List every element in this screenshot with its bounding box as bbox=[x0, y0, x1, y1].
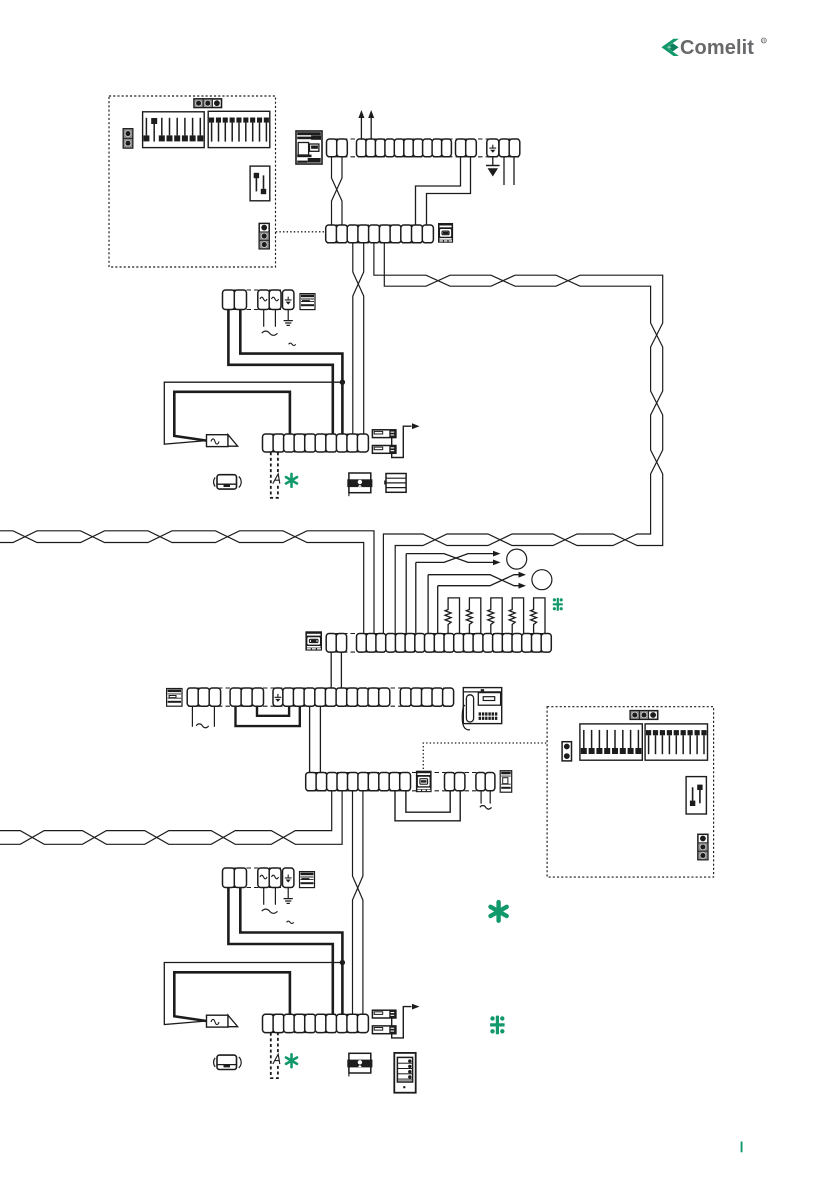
module icon left of row 1 (mixer unit) bbox=[296, 131, 322, 164]
bell circle 1 bbox=[507, 549, 527, 569]
AC leads row 4 bbox=[192, 706, 214, 727]
wire central row T1 to row 4 bbox=[330, 652, 332, 688]
lower riser twisted pair wire B bbox=[0, 791, 342, 845]
entrance panel icon bbox=[394, 1053, 415, 1093]
bell circle 2 bbox=[532, 570, 552, 590]
U jumper below row5 inner bbox=[406, 791, 450, 812]
wire pair row4 down to row5 bbox=[310, 706, 321, 772]
resistor R3 unit bbox=[488, 598, 502, 634]
dotted link monitor to unit box 2 bbox=[423, 743, 547, 769]
relay output arrow wire (upper) bbox=[392, 426, 412, 457]
jumper CV1 (unit 2) bbox=[562, 742, 571, 761]
green asterisk large bbox=[491, 902, 507, 921]
mains tilde label 1 bbox=[289, 343, 296, 346]
thick U wire to lock and row3 (upper) bbox=[174, 392, 290, 441]
switch box SW1 (unit 2) bbox=[686, 777, 706, 814]
twisted pair ring wire B (row2-right riser-central row) bbox=[383, 243, 662, 634]
green asterisk note (lower) bbox=[286, 1054, 297, 1067]
thick U wire to lock and row6 (lower) bbox=[174, 972, 290, 1021]
door module icon (lower) bbox=[349, 1053, 371, 1073]
mains tilde label 2 bbox=[287, 921, 294, 924]
relay link wire (upper) bbox=[391, 438, 393, 446]
arrow up from row1 terminal 4 bbox=[370, 118, 372, 140]
label A (lower) bbox=[273, 1054, 281, 1064]
jumper JP1 (unit 2) bbox=[630, 711, 658, 720]
AC source symbol row 4 bbox=[196, 724, 208, 728]
intercom telephone icon bbox=[463, 688, 501, 724]
thin wire loop to lock (lower) bbox=[164, 963, 342, 1025]
AC leads right of row5 bbox=[481, 791, 490, 804]
jumper CV2 (unit 1) bbox=[259, 223, 269, 248]
AC source symbol 1 bbox=[262, 331, 278, 335]
power supply terminal block 1 bbox=[224, 290, 293, 310]
push button icon (upper) bbox=[217, 475, 237, 489]
twisted pair riser A (row1 to row2) bbox=[332, 157, 343, 225]
svg-text:Comelit: Comelit bbox=[680, 37, 754, 59]
unit box 1 (dashed enclosure) bbox=[109, 96, 276, 267]
AC leads transformer 2 bbox=[264, 888, 276, 905]
dashed wire A (lower) bbox=[271, 1033, 278, 1078]
U jumper below row5 outer bbox=[395, 791, 460, 821]
power supply module icon 1 bbox=[300, 294, 315, 310]
terminal strip row 1 (power mixer) bbox=[328, 139, 519, 157]
thick wire PSU1 terminal 2 to row3 (inner L) bbox=[240, 310, 342, 435]
earth ground symbol 2 bbox=[284, 899, 293, 904]
twisted pair ring wire A (row2-right riser-central row) bbox=[374, 243, 663, 634]
module icon right of row 5 bbox=[500, 771, 512, 793]
green cross note (central) bbox=[553, 598, 563, 611]
Comelit logo bbox=[661, 37, 766, 59]
green asterisk note (upper) bbox=[286, 474, 297, 487]
resistor R5 unit bbox=[531, 598, 545, 634]
thick U jumper inner (row 4) bbox=[257, 706, 289, 716]
earth lead power supply 2 bbox=[287, 888, 289, 899]
AC tilde right of row5 bbox=[480, 806, 492, 810]
call wire pair 1 with crossover and arrows bbox=[406, 554, 493, 634]
resistor R2 unit bbox=[466, 598, 480, 634]
power supply module icon 2 bbox=[300, 872, 315, 888]
lower riser twisted pair wire A bbox=[0, 791, 332, 845]
wire central row T2 to row 4 bbox=[340, 652, 342, 688]
earth lead power supply 1 bbox=[287, 310, 289, 321]
electric lock icon (lower) bbox=[207, 1015, 229, 1027]
relay module pair (lower) bbox=[372, 1010, 396, 1018]
wire stubs below row1 last terminals bbox=[504, 157, 514, 185]
terminal strip row 2 (riser distribution) bbox=[327, 225, 432, 243]
unit box 2 (dashed enclosure) bbox=[547, 707, 714, 877]
wire row1 right to row2 (step 1) bbox=[416, 157, 461, 225]
call wire pair 2 with crossover and arrows bbox=[428, 575, 518, 634]
monitor module icon in row 5 bbox=[416, 771, 432, 793]
resistor R1 unit bbox=[445, 598, 459, 634]
dashed wire A (upper) bbox=[271, 452, 278, 498]
terminal strip row 4 (switchboard) bbox=[188, 688, 452, 706]
terminal strip row 5 (riser distribution lower) bbox=[307, 773, 494, 791]
jumper CV1 (unit 1) bbox=[123, 129, 132, 148]
monitor module icon right of row 2 bbox=[438, 223, 453, 243]
AC leads transformer 1 bbox=[264, 310, 276, 327]
arrow up from row1 terminal 3 bbox=[360, 118, 362, 140]
terminal strip row 6 (entrance panel lower) bbox=[264, 1014, 367, 1032]
power supply terminal block 2 bbox=[224, 868, 293, 888]
wire row1 right to row2 (step 2) bbox=[427, 157, 471, 225]
relay output arrow wire (lower) bbox=[392, 1007, 412, 1038]
AC source symbol 2 bbox=[262, 909, 278, 913]
thick wire PSU2 terminal 2 to row6 (inner L) bbox=[240, 888, 342, 1015]
DIP switch bank S2 (unit 1) bbox=[208, 111, 270, 147]
switch box SW1 (unit 1) bbox=[250, 166, 270, 201]
DIP switch bank S1 (unit 1) bbox=[143, 112, 205, 148]
earth ground symbol 1 bbox=[284, 321, 293, 326]
junction dot lower bbox=[340, 960, 345, 965]
label A (upper) bbox=[273, 474, 281, 484]
relay link wire (lower) bbox=[391, 1018, 393, 1026]
thick U jumper outer (row 4) bbox=[236, 706, 300, 726]
green cross note (lower) bbox=[490, 1016, 505, 1035]
resistor R4 unit bbox=[509, 598, 523, 634]
module icon left of row 4 bbox=[167, 689, 182, 707]
door module icon (upper) bbox=[349, 473, 371, 493]
thick wire PSU1 terminal 1 to row3 (outer L) bbox=[228, 310, 332, 435]
monitor module icon left of central row bbox=[305, 631, 322, 650]
relay module pair (upper) bbox=[372, 430, 396, 438]
left riser twisted pair wire A bbox=[0, 531, 374, 634]
dotted link unit1 to riser terminal block bbox=[276, 231, 326, 233]
jumper CV2 (unit 2) bbox=[698, 834, 708, 859]
DIP switch bank S2 (unit 2) bbox=[645, 724, 707, 760]
DIP switch bank S1 (unit 2) bbox=[580, 724, 642, 760]
jumper JP1 (unit 1) bbox=[194, 99, 222, 108]
terminal strip row 3 (entrance panel upper) bbox=[264, 434, 367, 452]
earth ground below row1 ground terminal bbox=[492, 157, 494, 166]
twisted pair riser B (row2 to row3) bbox=[353, 243, 364, 434]
thin wire loop to lock (upper) bbox=[164, 382, 342, 444]
central terminal strip (switching device) bbox=[328, 634, 550, 653]
green page marker bbox=[741, 1142, 743, 1153]
speaker box icon (upper) bbox=[386, 474, 406, 493]
push button icon (lower) bbox=[217, 1055, 237, 1069]
twisted pair riser C (row5 to row6) bbox=[353, 791, 363, 1015]
electric lock icon (upper) bbox=[207, 435, 229, 447]
thick wire PSU2 terminal 1 to row6 (outer L) bbox=[228, 888, 332, 1015]
junction dot upper bbox=[340, 380, 345, 385]
left riser twisted pair wire B bbox=[0, 531, 364, 634]
